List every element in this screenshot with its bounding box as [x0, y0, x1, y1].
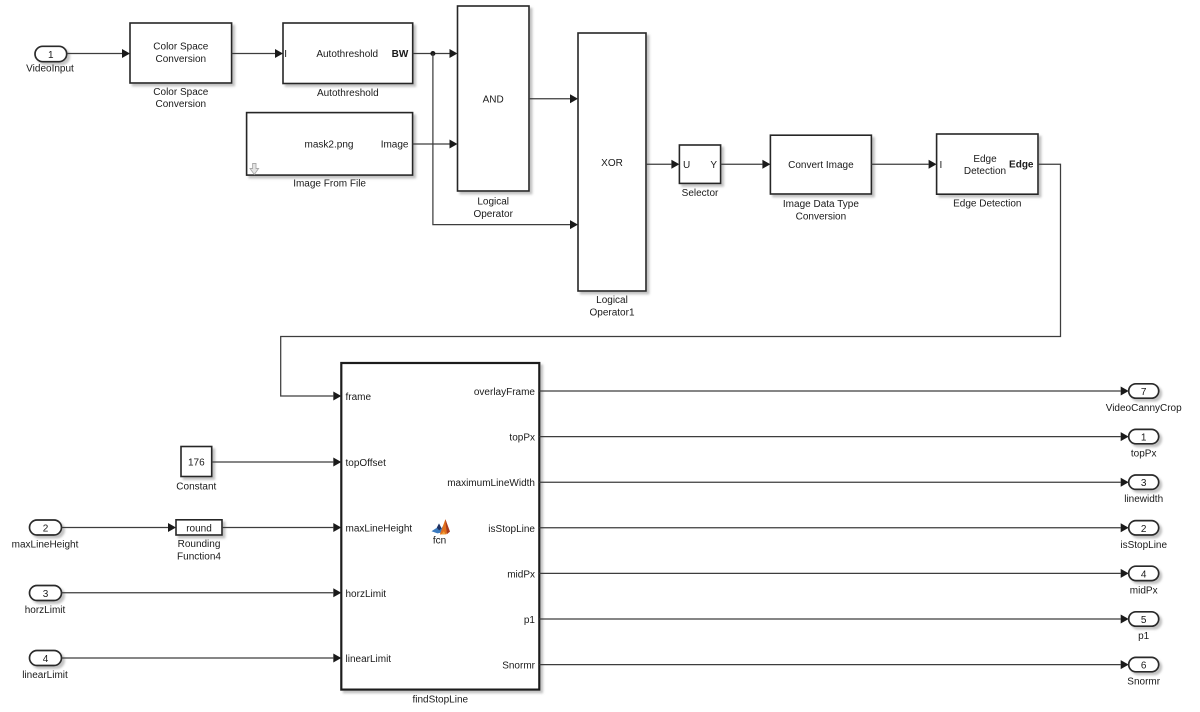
wire Snormr to outport 6 [539, 660, 1128, 669]
svg-text:Autothreshold: Autothreshold [316, 49, 378, 60]
svg-text:Conversion: Conversion [796, 211, 847, 222]
svg-text:topPx: topPx [1131, 449, 1157, 460]
svg-text:linearLimit: linearLimit [22, 670, 68, 681]
svg-text:linearLimit: linearLimit [346, 654, 392, 665]
svg-text:Color Space: Color Space [153, 87, 208, 98]
outport 6 Snormr [1127, 657, 1160, 687]
svg-text:Y: Y [710, 160, 717, 171]
svg-text:horzLimit: horzLimit [346, 589, 387, 600]
svg-text:Rounding: Rounding [178, 539, 221, 550]
svg-text:Color Space: Color Space [153, 42, 208, 53]
svg-text:linewidth: linewidth [1124, 494, 1163, 505]
wire topPx to outport 1 [539, 432, 1128, 441]
block round Rounding Function4 [176, 520, 222, 563]
svg-text:I: I [284, 49, 287, 60]
wire XOR to Selector [646, 160, 679, 169]
wire overlayFrame to outport 7 [539, 387, 1128, 396]
svg-text:mask2.png: mask2.png [305, 140, 354, 151]
block Selector [679, 145, 720, 199]
block Convert Image / Image Data Type Conversion [770, 135, 871, 222]
svg-text:Operator1: Operator1 [589, 307, 634, 318]
svg-text:VideoCannyCrop: VideoCannyCrop [1106, 403, 1182, 414]
svg-text:Image From File: Image From File [293, 178, 366, 189]
svg-text:Image Data Type: Image Data Type [783, 199, 859, 210]
svg-text:Logical: Logical [477, 196, 509, 207]
inport 2 maxLineHeight [12, 520, 79, 551]
block Color Space Conversion [130, 23, 232, 110]
svg-text:VideoInput: VideoInput [26, 64, 74, 75]
svg-text:Constant: Constant [176, 482, 216, 493]
svg-text:topOffset: topOffset [346, 458, 387, 469]
svg-text:1: 1 [48, 50, 54, 61]
wire maximumLineWidth to outport 3 [539, 478, 1128, 487]
outport 4 midPx [1129, 566, 1159, 596]
svg-text:midPx: midPx [507, 569, 535, 580]
inport 3 horzLimit [25, 586, 66, 617]
outport 7 VideoCannyCrop [1106, 384, 1182, 414]
svg-text:isStopLine: isStopLine [1120, 540, 1167, 551]
svg-text:3: 3 [1141, 478, 1147, 489]
svg-text:Detection: Detection [964, 166, 1006, 177]
wire AND to XOR input 1 [529, 94, 578, 103]
wire Image From File to AND input 2 [413, 140, 458, 149]
wire isStopLine to outport 2 [539, 523, 1128, 532]
svg-text:Edge: Edge [973, 154, 997, 165]
svg-text:Image: Image [381, 140, 409, 151]
svg-text:isStopLine: isStopLine [488, 524, 535, 535]
svg-text:topPx: topPx [509, 433, 535, 444]
svg-text:findStopLine: findStopLine [412, 695, 468, 706]
wire Color Space Conversion to Autothreshold [232, 49, 283, 58]
svg-text:overlayFrame: overlayFrame [474, 387, 536, 398]
svg-text:176: 176 [188, 458, 205, 469]
outport 2 isStopLine [1120, 521, 1167, 551]
outport 5 p1 [1129, 612, 1159, 642]
svg-text:maximumLineWidth: maximumLineWidth [447, 478, 535, 489]
svg-text:Snormr: Snormr [1127, 677, 1160, 688]
wire In1 to Color Space Conversion [67, 49, 130, 58]
block Autothreshold [283, 23, 413, 99]
svg-text:I: I [940, 160, 943, 171]
block AND Logical Operator [458, 6, 530, 220]
wire Edge Detection to findStopLine frame [281, 164, 1061, 400]
svg-text:Convert Image: Convert Image [788, 160, 854, 171]
svg-text:Operator: Operator [473, 209, 513, 220]
block Edge Detection [937, 134, 1038, 210]
svg-text:maxLineHeight: maxLineHeight [12, 540, 79, 551]
svg-text:4: 4 [1141, 569, 1147, 580]
wire In3 to horzLimit input [62, 588, 342, 597]
svg-text:AND: AND [483, 95, 504, 106]
wire Convert Image to Edge Detection [871, 160, 936, 169]
svg-text:Conversion: Conversion [156, 99, 207, 110]
svg-text:4: 4 [43, 654, 49, 665]
svg-text:U: U [683, 160, 690, 171]
svg-text:fcn: fcn [433, 536, 446, 547]
svg-text:Edge: Edge [1009, 160, 1034, 171]
block Constant 176 [176, 447, 216, 493]
outport 1 topPx [1129, 429, 1159, 459]
svg-text:1: 1 [1141, 433, 1147, 444]
svg-text:7: 7 [1141, 387, 1147, 398]
wire junction to XOR input 2 [433, 54, 578, 230]
svg-text:XOR: XOR [601, 158, 623, 169]
block Image From File [247, 113, 413, 190]
wire Autothreshold BW to AND [413, 49, 458, 58]
block findStopLine MATLAB Function [341, 363, 539, 706]
svg-text:2: 2 [1141, 524, 1147, 535]
MATLAB fcn logo [432, 519, 451, 546]
svg-text:Function4: Function4 [177, 552, 221, 563]
wire p1 to outport 5 [539, 615, 1128, 624]
svg-text:frame: frame [346, 392, 372, 403]
inport 4 linearLimit [22, 651, 68, 682]
svg-text:midPx: midPx [1130, 585, 1158, 596]
svg-text:3: 3 [43, 589, 49, 600]
svg-text:Edge Detection: Edge Detection [953, 199, 1021, 210]
wire In4 to linearLimit input [62, 654, 342, 663]
svg-text:Snormr: Snormr [502, 661, 535, 672]
svg-text:6: 6 [1141, 661, 1147, 672]
wire In2 to round [62, 523, 177, 532]
svg-text:Conversion: Conversion [156, 54, 207, 65]
wire midPx to outport 4 [539, 569, 1128, 578]
svg-text:Logical: Logical [596, 295, 628, 306]
wire Selector to Convert Image [721, 160, 771, 169]
svg-text:2: 2 [43, 524, 49, 535]
inport 1 VideoInput [26, 46, 74, 74]
junction dot BW branch [430, 51, 435, 56]
svg-text:Selector: Selector [682, 188, 719, 199]
block XOR Logical Operator1 [578, 33, 646, 318]
svg-text:BW: BW [392, 49, 409, 60]
outport 3 linewidth [1124, 475, 1163, 505]
svg-text:horzLimit: horzLimit [25, 605, 66, 616]
wire Constant to topOffset [212, 458, 342, 467]
svg-text:Autothreshold: Autothreshold [317, 88, 379, 99]
svg-text:5: 5 [1141, 615, 1147, 626]
svg-text:p1: p1 [524, 615, 536, 626]
svg-text:round: round [186, 524, 212, 535]
wire round to maxLineHeight input [222, 523, 341, 532]
svg-text:p1: p1 [1138, 631, 1150, 642]
svg-text:maxLineHeight: maxLineHeight [346, 524, 413, 535]
